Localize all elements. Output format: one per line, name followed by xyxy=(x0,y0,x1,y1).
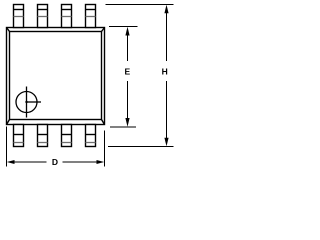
pin 4 (bottom row, rightmost) xyxy=(86,125,96,147)
pin 1 index marker circle xyxy=(16,87,41,118)
dimension H extension line bottom xyxy=(108,146,174,148)
svg-text:D: D xyxy=(52,157,58,167)
dimension H arrowhead up xyxy=(164,5,168,14)
body corner chamfer top-left xyxy=(7,28,10,32)
dimension E line upper segment xyxy=(127,33,129,61)
dimension D arrowhead right xyxy=(97,160,105,164)
dimension E line lower segment xyxy=(127,81,129,120)
dimension E extension line bottom xyxy=(110,126,136,128)
dimension E extension line top xyxy=(109,26,138,28)
body corner chamfer bottom-right xyxy=(102,120,105,125)
pin 3 (bottom row) xyxy=(62,125,72,147)
dimension H arrowhead down xyxy=(164,138,168,147)
pin 6 (top row) xyxy=(62,5,72,28)
dimension D extension line left xyxy=(6,127,8,167)
dimension D line right segment xyxy=(63,161,99,163)
dimension H extension line top xyxy=(106,4,174,6)
dimension H line upper segment xyxy=(166,11,168,61)
dimension D extension line right xyxy=(104,131,106,167)
pin 1 (bottom row, leftmost) xyxy=(14,125,24,147)
svg-text:H: H xyxy=(162,67,168,77)
pin 7 (top row) xyxy=(38,5,48,28)
dimension D line left segment xyxy=(13,161,47,163)
dimension E arrowhead up xyxy=(125,27,129,36)
body corner chamfer top-right xyxy=(102,28,105,32)
svg-text:E: E xyxy=(124,67,130,77)
package body inner outline (mold draft line) xyxy=(10,32,102,120)
dimension E arrowhead down xyxy=(125,118,129,127)
pin 2 (bottom row) xyxy=(38,125,48,147)
pin 8 (top row, leftmost) xyxy=(14,5,24,28)
package body outer outline xyxy=(7,28,105,125)
body corner chamfer bottom-left xyxy=(7,120,10,125)
dimension D arrowhead left xyxy=(7,160,15,164)
pin 5 (top row, rightmost) xyxy=(86,5,96,28)
dimension H line lower segment xyxy=(166,81,168,140)
